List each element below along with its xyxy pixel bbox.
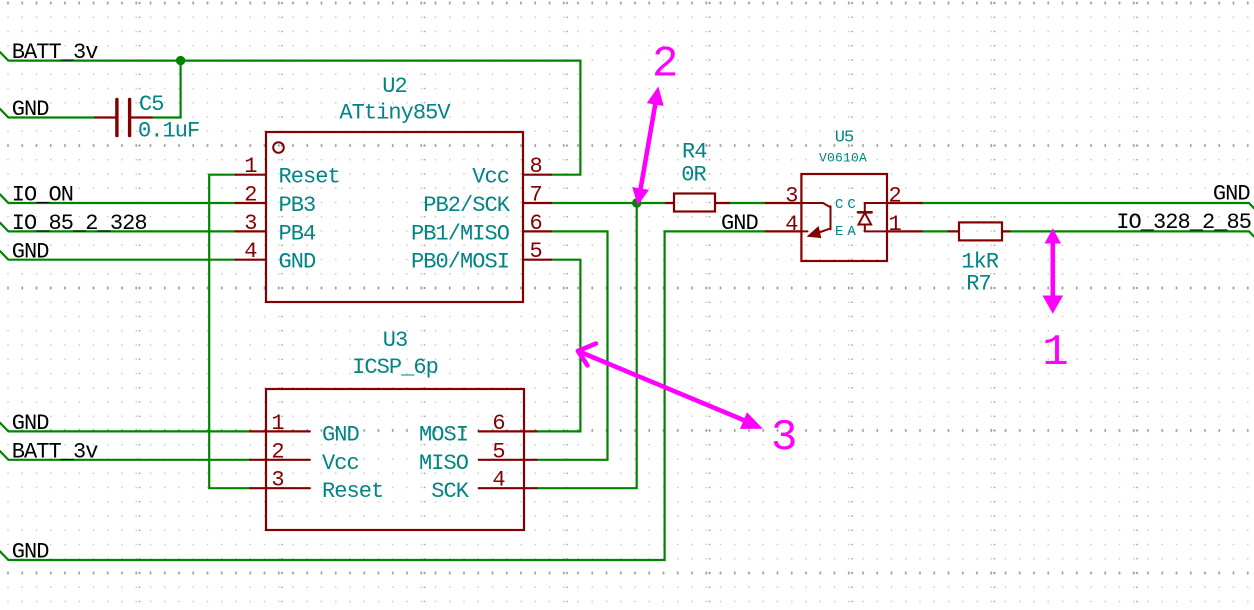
svg-text:0R: 0R — [681, 163, 706, 188]
svg-text:PB4: PB4 — [279, 221, 317, 246]
svg-text:IO_ON: IO_ON — [12, 183, 73, 208]
svg-text:U3: U3 — [383, 328, 408, 353]
wire GND to U3 pin1 — [0, 423, 250, 432]
svg-text:1: 1 — [244, 154, 257, 179]
U2 pin 8 stub — [523, 174, 551, 176]
svg-text:U2: U2 — [382, 74, 407, 99]
svg-text:Reset: Reset — [322, 479, 383, 504]
svg-text:2: 2 — [244, 183, 256, 208]
svg-text:ATtiny85V: ATtiny85V — [339, 101, 451, 126]
wire U5 pin2 to right GND label — [922, 203, 1254, 208]
U2 pin1 polarity circle — [273, 142, 284, 153]
wire U5 pin4 GND net down and to left edge — [8, 231, 765, 560]
wire GND row to U2 pin4 — [0, 251, 236, 260]
wire R7 to IO_328_2_85 label — [1010, 231, 1254, 236]
opto-coupler U5 body V0610A — [801, 174, 887, 261]
connector U3 body ICSP_6p — [266, 389, 524, 530]
wire C5 branch vertical — [152, 61, 181, 118]
wire Reset net U2 pin1 to U3 pin3 — [209, 175, 250, 489]
diode inside U5 — [858, 203, 887, 231]
svg-text:ICSP_6p: ICSP_6p — [352, 355, 438, 380]
U2 pin 3 stub — [236, 230, 266, 232]
svg-text:3: 3 — [271, 468, 283, 493]
svg-text:EA: EA — [835, 224, 860, 240]
U2 pin 7 stub — [523, 202, 551, 204]
svg-text:GND: GND — [12, 540, 50, 565]
svg-text:3: 3 — [785, 184, 797, 209]
svg-text:GND: GND — [721, 211, 759, 236]
wire U5 pin1 to R7 — [922, 230, 949, 232]
svg-text:4: 4 — [785, 212, 798, 237]
resistor R4 — [666, 194, 729, 212]
svg-text:PB3: PB3 — [279, 193, 316, 218]
wire MOSI U2 pin5 to U3 pin6 — [537, 260, 581, 432]
svg-text:GND: GND — [12, 97, 50, 122]
wire R4 to U5 pin3 — [729, 202, 766, 204]
wire GND to C5 — [0, 109, 95, 118]
wire BATT_3v top row — [0, 52, 580, 175]
wire IO_85_2_328 row — [0, 223, 236, 232]
svg-text:4: 4 — [492, 468, 505, 493]
U2 pin 4 stub — [236, 259, 266, 261]
svg-text:7: 7 — [530, 183, 542, 208]
wire IO_ON row — [0, 194, 236, 203]
svg-text:BATT_3v: BATT_3v — [12, 40, 99, 65]
svg-text:IO_328_2_85: IO_328_2_85 — [1116, 210, 1251, 235]
svg-text:PB2/SCK: PB2/SCK — [423, 193, 511, 218]
svg-text:IO_85_2_328: IO_85_2_328 — [12, 211, 147, 236]
svg-text:GND: GND — [12, 239, 50, 264]
svg-text:R4: R4 — [682, 140, 707, 165]
U3 pin 6 line — [479, 430, 537, 432]
wire BATT_3v to U3 pin2 — [0, 451, 250, 460]
U2 pin 6 stub — [523, 230, 551, 232]
svg-text:GND: GND — [322, 422, 360, 447]
junction dot SCK node — [632, 198, 641, 207]
U2 pin 2 stub — [236, 202, 266, 204]
svg-text:C5: C5 — [139, 92, 164, 117]
svg-text:1: 1 — [1042, 328, 1068, 378]
svg-text:PB0/MOSI: PB0/MOSI — [411, 250, 509, 275]
U5 pin 2 stub — [887, 202, 922, 204]
svg-text:5: 5 — [492, 439, 504, 464]
svg-text:Vcc: Vcc — [472, 165, 509, 190]
U3 pin 2 line — [250, 459, 309, 461]
wire MISO U2 pin6 to U3 pin5 — [537, 231, 608, 459]
resistor R7 — [949, 222, 1010, 240]
U2 pin 5 stub — [523, 259, 551, 261]
svg-text:BATT_3v: BATT_3v — [12, 439, 99, 464]
svg-text:MISO: MISO — [419, 451, 469, 476]
U3 pin 1 line — [250, 430, 309, 432]
svg-text:5: 5 — [530, 239, 542, 264]
wire U2 pin7 to R4 with SCK branch — [551, 202, 666, 204]
svg-text:1: 1 — [889, 212, 902, 237]
svg-text:SCK: SCK — [431, 479, 470, 504]
annotation arrow 1 — [1043, 228, 1064, 314]
svg-text:PB1/MISO: PB1/MISO — [411, 221, 510, 246]
wire SCK vertical to U3 pin4 — [537, 203, 637, 488]
svg-text:1: 1 — [271, 411, 284, 436]
svg-text:6: 6 — [492, 411, 504, 436]
U3 pin 5 line — [479, 459, 537, 461]
svg-text:U5: U5 — [835, 129, 854, 148]
U3 pin 3 line — [250, 487, 309, 489]
svg-text:GND: GND — [1213, 182, 1251, 207]
svg-text:2: 2 — [889, 184, 901, 209]
annotation arrow 2 — [632, 86, 663, 205]
capacitor C5 — [95, 99, 152, 135]
U5 pin 4 stub — [766, 230, 802, 232]
svg-text:2: 2 — [271, 439, 283, 464]
wire bottom GND label lead — [0, 551, 8, 560]
svg-text:2: 2 — [652, 40, 678, 90]
svg-text:4: 4 — [244, 239, 257, 264]
U2 pin 1 stub — [236, 174, 266, 176]
svg-text:3: 3 — [771, 413, 797, 463]
annotation arrow 3 — [578, 344, 763, 429]
svg-text:Reset: Reset — [279, 165, 340, 190]
svg-text:GND: GND — [12, 411, 50, 436]
U5 pin 1 stub — [887, 230, 922, 232]
svg-text:GND: GND — [279, 250, 317, 275]
op-amp U2 body ATtiny85V — [266, 132, 523, 302]
transistor inside U5 — [801, 203, 830, 238]
svg-text:8: 8 — [530, 154, 542, 179]
svg-text:V0610A: V0610A — [819, 151, 867, 166]
svg-text:MOSI: MOSI — [419, 422, 468, 447]
U5 pin 3 stub — [766, 202, 802, 204]
U3 pin 4 line — [479, 487, 537, 489]
svg-text:6: 6 — [530, 211, 542, 236]
svg-text:Vcc: Vcc — [322, 451, 359, 476]
svg-text:CC: CC — [835, 197, 860, 213]
svg-text:3: 3 — [244, 211, 256, 236]
junction dot at BATT_3v / C5 branch — [176, 56, 185, 65]
svg-text:0.1uF: 0.1uF — [138, 119, 199, 144]
svg-text:R7: R7 — [966, 272, 991, 297]
